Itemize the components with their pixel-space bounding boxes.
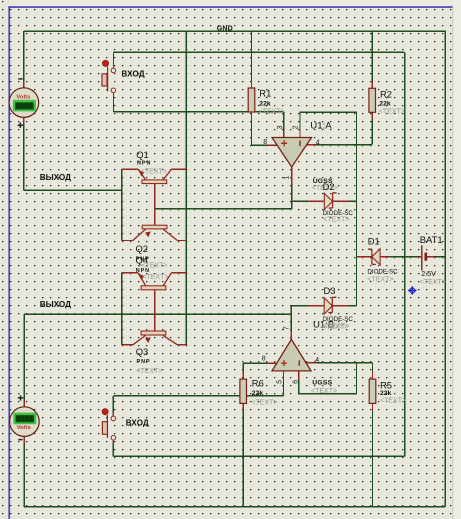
wire R6 bottom to bottom rail [242,411,244,507]
wire Q1 emitter collector leads [122,168,187,170]
wire D1 pins [357,256,390,258]
wire pin8 stub net B left [243,362,268,364]
svg-text:<TEXT>: <TEXT> [141,168,167,175]
wire Q4 emitter collector leads [122,272,187,274]
wire switch1 bottom terminal down [113,100,115,112]
wire Q1 Q2 base vertical [154,184,156,226]
svg-text:22k: 22k [259,101,271,108]
wire D3 anode horizontal [291,305,316,307]
V1 polarity marks [18,79,23,128]
wire switch1 top loop horizontal [114,51,405,53]
wire input1 horizontal to op-amp plus [114,111,284,113]
transistor Q4 [138,273,172,290]
wire op-amp A inverting feedback box [300,112,357,144]
wire diode chain vertical [356,145,358,306]
diode D3 [324,297,336,314]
wire VYHOD2 horizontal to U1:B output [24,313,291,315]
svg-text:BAT1: BAT1 [420,234,443,245]
wire D1 to BAT1 [388,256,419,258]
wire right loop vertical [404,52,406,456]
wire op-amp B output pin [290,330,292,339]
resistor R2 [369,88,376,112]
svg-text:D1: D1 [368,235,380,246]
label D3 [323,285,354,330]
wire switch2 pins [112,413,114,444]
origin marker blue cross [408,286,416,294]
wire GND ring right side [444,31,446,507]
wire D3 cathode to chain [347,305,356,307]
wire op-amp B inverting feedback box [299,363,357,394]
svg-text:<TEXT>: <TEXT> [259,108,285,115]
transistor Q1 [138,169,172,183]
wire R6 pins [242,371,244,411]
wire R5 top drop [372,363,374,371]
wire V1 plus down to output corner [23,124,25,190]
svg-text:7: 7 [284,326,291,330]
svg-text:NPN: NPN [137,160,151,166]
svg-text:6: 6 [292,380,299,384]
svg-text:ВХОД: ВХОД [122,69,145,78]
svg-text:22k: 22k [252,390,264,397]
wire R5 bottom to bottom rail [372,411,374,507]
wire R1 pins [251,81,253,120]
label R1 [259,87,285,115]
resistor R1 [248,88,255,112]
wire Q4 Q3 base vertical [154,291,156,332]
svg-text:DIODE-SC: DIODE-SC [323,316,354,323]
svg-text:<TEXT>: <TEXT> [420,279,446,286]
wire V2 minus down to bottom rail [23,442,25,507]
label Q2 with overlapped Q4 labels [136,243,169,281]
wire left V1 minus from ring [23,31,25,81]
wire pin4 stub net B right [316,362,373,364]
label R5 [380,379,406,404]
svg-text:<TEXT>: <TEXT> [367,276,393,283]
switch SW2 input2 [102,409,116,440]
svg-text:Q2: Q2 [136,243,149,254]
svg-text:ВЫХОД: ВЫХОД [40,173,71,182]
svg-text:4: 4 [316,140,320,147]
wire D2 anode from output node [292,200,317,202]
svg-text:<TEXT>: <TEXT> [136,368,162,375]
wire op-amp A output down [291,183,293,209]
wire base drive 1 horizontal [155,208,292,210]
diode D1 [368,249,380,265]
label R2 [379,89,405,116]
wire VYHOD2 corner down to V2 plus [23,314,25,400]
wire collector rail from GND [185,31,187,345]
svg-text:DIODE-SC: DIODE-SC [367,268,398,275]
svg-text:R2: R2 [380,89,392,100]
label U1:A [310,120,332,131]
svg-text:22k: 22k [379,101,391,108]
svg-text:UGSS: UGSS [312,379,332,386]
svg-text:Q1: Q1 [136,149,149,160]
wire V1 terminals [23,81,25,125]
svg-text:Q3: Q3 [136,346,149,357]
label BAT1 [420,234,446,286]
wire R2 top to GND rail [371,31,373,81]
svg-text:<TEXT>: <TEXT> [323,217,349,224]
wire R2 pins [371,81,373,120]
pin numbers op-amp A [263,125,320,179]
svg-text:<TEXT>: <TEXT> [379,109,405,116]
svg-text:<TEXT>: <TEXT> [251,400,277,407]
label R6 [251,378,277,407]
pin numbers op-amp B [262,326,320,384]
wire switch1 pins [113,64,115,100]
svg-text:R1: R1 [259,87,271,98]
label UGSS net at U1:B [311,379,337,395]
battery BAT1 [422,245,426,270]
wire U1:B output up to D3 [290,306,292,331]
svg-text:R6: R6 [252,378,264,389]
svg-text:2.5V: 2.5V [421,269,436,278]
wire op-amp B plus input rise [283,378,285,396]
wire Q1 Q2 emitter vertical output node [121,169,123,240]
transistor Q2 [133,225,178,240]
svg-text:8: 8 [263,139,267,146]
net label GND [217,25,233,32]
label U1:B with overlay [313,320,348,332]
svg-text:ВЫХОД: ВЫХОД [40,300,71,309]
wire BAT1 pins [418,256,435,258]
wire bottom loop horizontal to switch2 [114,455,405,457]
wire R2 bottom down [371,120,373,145]
wire V2 terminals [23,400,25,444]
wire bottom rail V2- to ring [24,506,445,508]
transistor Q3 [133,331,178,345]
svg-text:1: 1 [283,176,290,180]
resistor R6 [240,379,247,403]
wire op-amp A pin4 net horizontal [316,144,373,146]
wire op-amp A power stubs pin8 pin4 [268,144,317,147]
svg-text:PNP: PNP [137,359,151,365]
net label VHOD input1 [122,69,145,78]
wire op-amp A input pins [284,130,300,138]
svg-text:U1:A: U1:A [310,120,332,131]
label Q1 [136,149,167,175]
resistor R5 [369,379,376,403]
svg-text:<TEXT>: <TEXT> [311,388,337,395]
wire switch1 top terminal [113,52,115,64]
svg-text:ВХОД: ВХОД [126,418,149,427]
wire D3 pins [308,305,349,307]
label Q3 [136,346,163,375]
battery V1 [9,88,39,118]
wire R1 bottom to pin8 stub [252,113,269,146]
wire D2 cathode to chain [348,200,357,202]
svg-text:8: 8 [262,356,266,363]
wire switch2 top terminal [112,396,114,414]
wire op-amp A output pin [291,167,293,184]
svg-text:Volts: Volts [17,425,32,431]
svg-text:Volts: Volts [16,94,31,100]
svg-text:<TEXT>: <TEXT> [380,398,406,405]
svg-text:2: 2 [293,125,300,129]
wire op-amp A plus input drop [283,112,285,131]
wire switch2 bottom terminal [112,443,114,456]
switch SW1 input1 [102,60,116,92]
svg-text:<TEXT>: <TEXT> [323,323,349,330]
op-amp U1:A body [272,138,312,168]
svg-text:5: 5 [277,380,284,384]
wire D2 pins [308,200,349,202]
svg-text:D2: D2 [323,181,335,192]
net label VHOD input2 [126,418,149,427]
wire Q3 emitter collector leads [122,344,187,346]
wire GND ring top rail [24,30,446,32]
svg-text:3: 3 [277,125,284,129]
wire Q2 emitter collector leads [122,240,187,242]
wire R6 top drop [242,363,244,371]
V2 polarity marks [18,395,23,439]
wire BAT1 to ring right [434,256,445,258]
wire R5 pins [372,371,374,411]
wire op-amp B power stubs pin8 pin4 [268,362,317,364]
wire D1 anode from chain [357,256,365,258]
battery V2 [10,407,40,437]
svg-text:4: 4 [315,357,319,364]
wire op-amp B input pins [284,371,299,379]
svg-text:<TEXT>: <TEXT> [142,274,168,281]
label D2 with UGSS net label [312,178,353,224]
svg-text:R5: R5 [380,379,392,390]
svg-text:GND: GND [217,25,233,32]
label D1 [367,235,398,283]
wire Q4 Q3 emitter vertical [121,273,123,345]
wire R1 top to GND rail [251,31,253,81]
net label VYHOD output1 [40,173,71,182]
wire VYHOD1 output node horizontal [24,189,122,191]
wire input2 horizontal behind R6 [113,395,283,397]
svg-text:22k: 22k [380,390,392,397]
net label VYHOD output2 [40,300,71,309]
diode D2 [324,193,336,210]
op-amp U1:B body [272,339,311,371]
svg-text:D3: D3 [324,285,336,296]
